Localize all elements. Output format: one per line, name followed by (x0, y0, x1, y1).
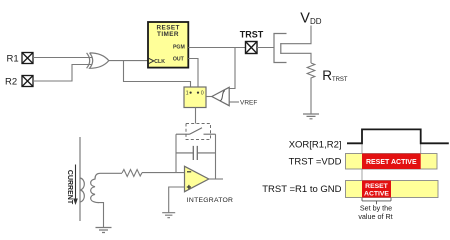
svg-text:1: 1 (186, 90, 189, 96)
comparator U4 triangle (212, 87, 229, 105)
waveform thin vertical guide at rising edge (361, 143, 363, 180)
op-amp plus sign (187, 185, 191, 189)
svg-text:RESET: RESET (365, 183, 389, 190)
ground below op-amp (162, 213, 175, 218)
transformer primary winding bumps (80, 178, 84, 202)
capacitor C1 (176, 146, 216, 160)
timing bar 2 (TRST=R1 to GND) (346, 181, 439, 198)
annotation set by the value of Rt (358, 204, 392, 222)
wire TRST node down to comparator top input (229, 48, 235, 89)
svg-text:ACTIVE: ACTIVE (364, 191, 389, 198)
transistor Q1 gate bracket (274, 34, 287, 63)
svg-text:TRST =VDD: TRST =VDD (289, 157, 342, 168)
wire noninverting input to ground (169, 187, 185, 213)
wire PGM to TRST node (188, 47, 245, 49)
wire mux select from comparator (206, 96, 213, 98)
svg-text:0: 0 (201, 90, 204, 96)
op-amp minus sign (187, 171, 191, 173)
wire feedback left vertical (175, 134, 177, 172)
wire comparator lower input to VREF (229, 101, 239, 103)
wire coil bottom to ground (99, 203, 104, 228)
svg-text:VREF: VREF (240, 99, 257, 106)
svg-text:R1: R1 (7, 54, 19, 65)
node R1 terminal (crossed box) (22, 53, 33, 64)
switch S1 dashed enclosure (186, 124, 211, 140)
svg-text:INTEGRATOR: INTEGRATOR (187, 197, 233, 204)
wire TRST to transistor gate (257, 47, 274, 49)
XOR gate U1 (87, 53, 109, 68)
reset active region bar 1 (362, 154, 421, 170)
wire R1 to XOR top input (33, 57, 92, 59)
svg-text:PGM: PGM (173, 44, 185, 50)
resistor RTRST zigzag (307, 63, 315, 81)
svg-text:CURRENT: CURRENT (66, 170, 73, 205)
current direction arrow (75, 165, 77, 200)
switch S1 contacts and blade (176, 128, 216, 134)
svg-text:TRST =R1 to GND: TRST =R1 to GND (262, 184, 341, 195)
wire mux output down to switch (195, 108, 197, 124)
waveform thin vertical guide at falling edge (420, 143, 422, 153)
wire op-amp output (209, 178, 223, 180)
node R2 terminal (crossed box) (22, 76, 33, 87)
wire junction branch down to mux input 1 (124, 61, 191, 92)
current transformer primary line (79, 137, 81, 221)
transistor Q1 source lead to RTRST (281, 53, 311, 63)
svg-text:TIMER: TIMER (157, 31, 179, 38)
transformer secondary coil L1 (91, 173, 100, 202)
waveform XOR[R1,R2] trace (347, 129, 449, 143)
svg-text:RESET ACTIVE: RESET ACTIVE (366, 159, 417, 166)
wire resistor to inverting input (142, 172, 185, 174)
svg-text:R2: R2 (5, 77, 17, 88)
ground below transformer (96, 228, 112, 233)
svg-text:TRST: TRST (240, 30, 264, 40)
mux U3 box (184, 87, 206, 108)
mux input dots (190, 92, 192, 94)
transistor Q1 channel (280, 43, 282, 54)
op-amp U5 integrator triangle (185, 166, 209, 191)
node TRST terminal (crossed box) (246, 42, 258, 54)
wire feedback right vertical (215, 134, 217, 179)
wire R2 to XOR bottom input (33, 65, 92, 82)
svg-text:OUT: OUT (173, 57, 185, 63)
svg-text:CLK: CLK (154, 59, 165, 65)
measurement bracket under bar 2 (362, 198, 391, 205)
wire OUT to mux input 0 (188, 59, 198, 93)
ground below RTRST (303, 114, 319, 119)
timing bar 1 (TRST=VDD) (346, 154, 438, 170)
wire coil top to resistor (100, 172, 122, 174)
RESET TIMER block U2 (148, 22, 188, 68)
wire RTRST to ground (310, 81, 312, 114)
comparator hysteresis symbol (220, 91, 225, 101)
reset active region bar 2 (362, 181, 391, 198)
svg-text:XOR[R1,R2]: XOR[R1,R2] (289, 139, 342, 150)
transistor Q1 drain lead to VDD (281, 26, 311, 44)
resistor R3 zigzag (input resistor) (122, 170, 142, 177)
svg-text:value of Rt: value of Rt (358, 212, 392, 221)
wire XOR output to CLK (109, 60, 148, 62)
RESET TIMER title text (157, 24, 180, 38)
